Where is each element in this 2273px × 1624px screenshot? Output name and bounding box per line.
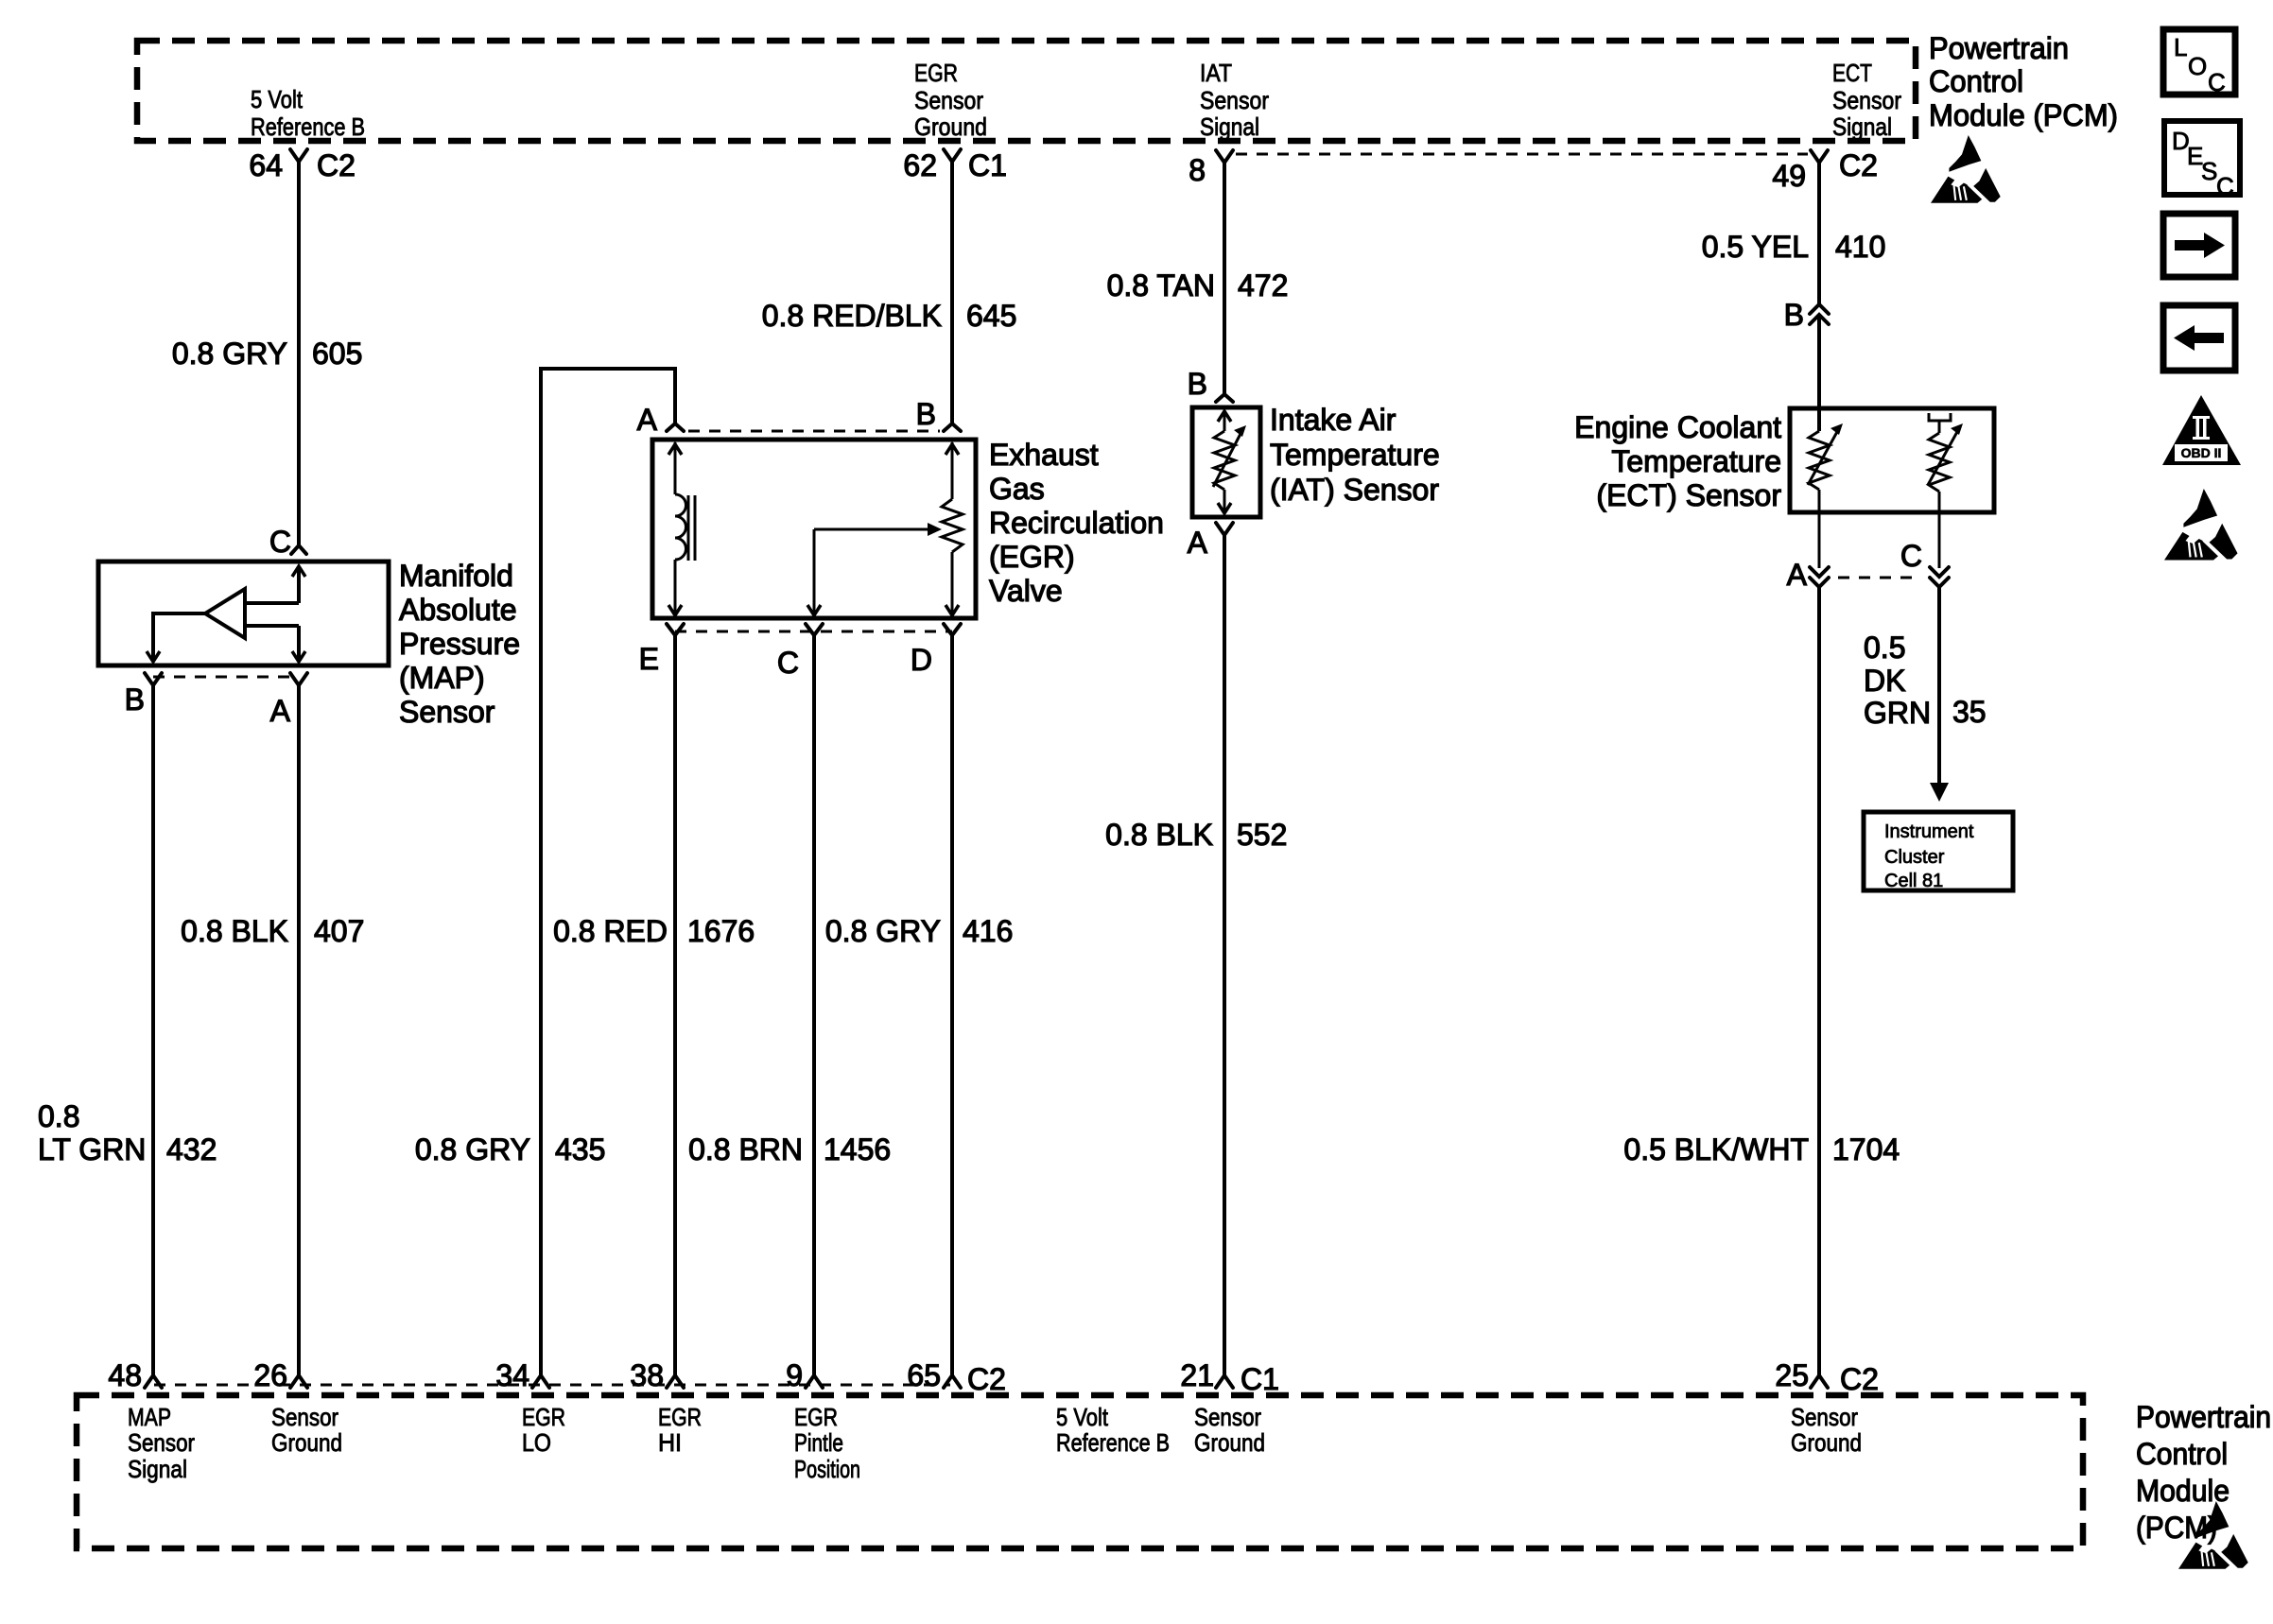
EGR pin C [806,624,823,635]
svg-text:5 Volt: 5 Volt [1056,1403,1109,1431]
svg-text:48: 48 [108,1358,142,1392]
EGR pin E [667,624,684,635]
svg-text:Control: Control [1929,64,2023,98]
svg-text:Signal: Signal [1832,112,1892,141]
svg-text:(MAP): (MAP) [399,661,485,695]
svg-text:C: C [2208,68,2226,96]
wire 35 (0.5 DK GRN) C to instrument cluster [1937,587,1941,785]
svg-text:LO: LO [522,1428,551,1457]
wire 435 branch: EGR A up and left to pin 34 [541,369,675,1375]
svg-text:Temperature: Temperature [1611,444,1781,478]
svg-text:605: 605 [312,337,362,371]
IAT pin A [1216,523,1233,535]
svg-text:LT GRN: LT GRN [38,1132,146,1166]
svg-text:O: O [2188,52,2207,80]
ESD symbol bottom right [2178,1501,2248,1570]
pin 9 (PCM bottom) [806,1375,823,1388]
svg-text:416: 416 [963,914,1013,948]
pin 65 (PCM bottom) [944,1375,961,1388]
svg-text:0.8 BRN: 0.8 BRN [688,1132,803,1166]
svg-text:Recirculation: Recirculation [989,506,1164,540]
pin 25 (PCM bottom) [1811,1375,1828,1388]
ECT sensor box [1790,408,1994,512]
svg-text:C: C [2216,172,2234,200]
svg-text:0.8 TAN: 0.8 TAN [1107,268,1215,302]
svg-text:65: 65 [907,1358,941,1392]
svg-text:0.8 BLK: 0.8 BLK [1105,818,1213,852]
svg-text:25: 25 [1775,1358,1809,1392]
wire 1704 (0.5 BLK/WHT) A to pin 25 [1817,587,1821,1375]
svg-text:D: D [911,643,932,677]
EGR pin D [944,624,961,635]
EGR solenoid coil [674,442,677,494]
svg-text:1456: 1456 [824,1132,891,1166]
instrument cluster box [1864,812,2013,890]
svg-text:(IAT) Sensor: (IAT) Sensor [1270,473,1439,507]
pin 48 (PCM bottom) [145,1375,162,1388]
wire 416 (0.8 GRY) EGR D to pin 65 [950,635,954,1375]
svg-text:26: 26 [253,1358,287,1392]
svg-text:(EGR): (EGR) [989,540,1075,574]
pin 38 (PCM bottom) [667,1375,684,1388]
ECT thermistor 1 [1809,431,1830,490]
svg-text:Cell 81: Cell 81 [1884,871,1943,891]
MAP sensor box [98,561,389,665]
MAP pin C [291,545,306,554]
wire 432 (0.8 LT GRN) MAP B to pin 48 [151,685,155,1375]
EGR pin A [667,423,684,431]
pin 64 C2 (PCM top) [290,149,307,162]
pin 49 C2 (PCM top) [1811,150,1828,163]
svg-text:Sensor: Sensor [1791,1403,1858,1431]
svg-text:64: 64 [249,148,283,182]
svg-text:Reference B: Reference B [1056,1428,1170,1457]
svg-text:49: 49 [1772,159,1806,193]
icon: OBD II triangle [2162,395,2241,465]
MAP connector dashed line B-A [153,676,299,679]
svg-text:0.5 YEL: 0.5 YEL [1702,230,1809,264]
svg-text:C2: C2 [967,1362,1006,1396]
svg-text:Ground: Ground [1194,1428,1265,1457]
svg-text:Pressure: Pressure [399,627,520,661]
svg-text:Exhaust: Exhaust [989,438,1099,472]
svg-text:Manifold: Manifold [399,559,513,593]
wire splice B to ECT [1817,315,1821,431]
svg-text:Ground: Ground [914,112,987,141]
svg-text:Cluster: Cluster [1884,847,1945,868]
svg-text:5 Volt: 5 Volt [251,85,304,113]
svg-text:0.8 GRY: 0.8 GRY [825,914,941,948]
EGR pintle position resistor [951,442,954,499]
svg-text:DK: DK [1864,664,1905,698]
svg-text:B: B [125,682,145,717]
svg-text:Engine Coolant: Engine Coolant [1574,410,1781,444]
PCM bottom dashed box [77,1395,2083,1548]
svg-text:EGR: EGR [522,1403,565,1431]
svg-text:Instrument: Instrument [1884,821,1974,842]
IAT pin B [1216,394,1233,402]
svg-text:Sensor: Sensor [128,1428,195,1457]
svg-text:L: L [2174,33,2187,61]
IAT sensor box [1192,407,1260,517]
ESD symbol right column [2164,489,2238,561]
pin 26 (PCM bottom) [290,1375,307,1388]
svg-text:A: A [637,403,658,437]
svg-text:C1: C1 [968,148,1007,182]
svg-text:432: 432 [166,1132,217,1166]
svg-text:Module: Module [2136,1474,2230,1508]
svg-text:EGR: EGR [794,1403,838,1431]
IAT thermistor element [1223,410,1226,431]
svg-text:Position: Position [794,1455,860,1483]
pin 8 (PCM top) [1216,150,1233,163]
wire 410 (0.5 YEL) pin 49 to splice B [1817,162,1821,304]
svg-text:Signal: Signal [128,1455,187,1483]
svg-text:E: E [639,642,659,676]
svg-text:552: 552 [1237,818,1287,852]
svg-text:Powertrain: Powertrain [1929,31,2069,65]
svg-text:C2: C2 [1839,148,1878,182]
svg-text:410: 410 [1835,230,1885,264]
in-line connector A (double chevron) [1810,567,1829,577]
ECT thermistor 1 variable arrow [1808,430,1838,485]
svg-text:0.5 BLK/WHT: 0.5 BLK/WHT [1623,1132,1809,1166]
svg-text:0.8 RED: 0.8 RED [553,914,668,948]
ECT thermistor 2 variable arrow [1928,430,1958,485]
svg-text:A: A [270,694,291,728]
EGR valve box [652,440,976,618]
svg-text:407: 407 [314,914,364,948]
wire 1676 (0.8 RED) EGR E to pin 38 [673,635,677,1375]
svg-text:472: 472 [1238,268,1288,302]
svg-text:Pintle: Pintle [794,1428,843,1457]
svg-text:S: S [2201,157,2217,185]
pin 21 (PCM bottom) [1216,1375,1233,1388]
icon: LOC box [2163,29,2235,95]
ESD symbol top right [1931,135,2001,204]
svg-text:C: C [777,646,799,680]
ECT thermistor 2 [1929,433,1950,492]
PCM top dashed box [137,41,1916,141]
svg-text:EGR: EGR [914,59,958,87]
svg-text:B: B [916,397,936,431]
svg-text:9: 9 [786,1358,803,1392]
op-amp triangle (MAP) [205,589,245,638]
svg-text:0.8 BLK: 0.8 BLK [181,914,288,948]
ECT element 2 case symbol [1929,413,1951,433]
EGR connector dashed line A-B [688,430,940,433]
svg-text:MAP: MAP [128,1403,171,1431]
svg-text:0.8 RED/BLK: 0.8 RED/BLK [762,299,942,333]
svg-text:Module (PCM): Module (PCM) [1929,98,2118,132]
svg-text:Ground: Ground [1791,1428,1862,1457]
connector dashed line pins 8 to 49 [1236,153,1808,156]
svg-text:0.8 GRY: 0.8 GRY [172,337,287,371]
svg-text:A: A [1787,558,1808,592]
svg-text:Gas: Gas [989,472,1045,506]
svg-text:A: A [1188,526,1208,560]
svg-text:21: 21 [1180,1358,1214,1392]
wire 407 (0.8 BLK) MAP A to pin 26 [297,685,301,1375]
MAP pin B [145,673,162,685]
svg-text:Valve: Valve [989,574,1063,608]
svg-text:Sensor: Sensor [1200,86,1269,114]
connector dashed line pins 48 to 65 [154,1384,950,1387]
svg-text:8: 8 [1189,153,1206,187]
wire 1456 (0.8 BRN) EGR C to pin 9 [812,635,816,1375]
svg-text:645: 645 [966,299,1016,333]
svg-text:Reference B: Reference B [251,112,365,141]
svg-text:Powertrain: Powertrain [2136,1400,2271,1434]
connector dashed line A-C [1838,577,1920,579]
in-line connector C (double chevron) [1930,567,1949,577]
svg-text:Temperature: Temperature [1270,438,1440,472]
icon: arrow right box [2163,214,2235,277]
IAT variable arrow [1213,432,1241,487]
svg-text:C1: C1 [1241,1362,1279,1396]
svg-text:0.8 GRY: 0.8 GRY [415,1132,530,1166]
EGR wiper arrow from pin C [814,528,930,531]
svg-text:Ground: Ground [271,1428,342,1457]
svg-text:OBD II: OBD II [2181,445,2222,460]
svg-text:Sensor: Sensor [1832,86,1901,114]
pin 34 (PCM bottom) [532,1375,549,1388]
wire 605 (0.8 GRY) pin 64 to MAP C [297,162,301,544]
MAP pin A [290,673,307,685]
svg-text:C: C [269,525,291,559]
wire 645 (0.8 RED/BLK) pin 62 to EGR B [950,162,954,423]
MAP output line to pin B [153,613,205,661]
svg-text:435: 435 [555,1132,605,1166]
svg-text:1704: 1704 [1832,1132,1900,1166]
svg-text:38: 38 [630,1358,664,1392]
svg-text:Control: Control [2136,1437,2228,1471]
svg-text:Absolute: Absolute [399,593,517,627]
svg-text:B: B [1188,367,1207,401]
svg-text:Sensor: Sensor [1194,1403,1261,1431]
svg-text:Intake Air: Intake Air [1270,403,1397,437]
MAP internal signal line [297,567,301,603]
svg-text:C: C [1900,539,1922,573]
svg-text:35: 35 [1952,695,1987,729]
icon: arrow left box [2163,305,2235,371]
svg-text:Signal: Signal [1200,112,1259,141]
svg-text:34: 34 [495,1358,529,1392]
svg-text:62: 62 [903,148,937,182]
svg-text:Sensor: Sensor [914,86,983,114]
svg-text:1676: 1676 [687,914,755,948]
svg-text:Sensor: Sensor [399,695,495,729]
svg-text:0.5: 0.5 [1864,631,1905,665]
EGR pin B [944,423,961,431]
svg-text:IAT: IAT [1200,59,1232,87]
svg-text:Sensor: Sensor [271,1403,338,1431]
svg-text:ECT: ECT [1832,59,1872,87]
svg-text:EGR: EGR [658,1403,702,1431]
svg-text:C2: C2 [317,148,356,182]
in-line connector B (double chevron) [1810,304,1829,314]
wire 472 (0.8 TAN) pin 8 to IAT B [1223,162,1226,393]
svg-text:GRN: GRN [1864,696,1931,730]
svg-text:0.8: 0.8 [38,1099,79,1133]
wire 552 (0.8 BLK) IAT A to pin 21 [1223,535,1226,1375]
svg-text:(ECT) Sensor: (ECT) Sensor [1596,478,1781,512]
pin 62 C1 (PCM top) [944,149,961,162]
EGR connector dashed line E-C-D [675,631,952,633]
svg-text:B: B [1784,298,1804,332]
icon: DESC box [2164,121,2240,195]
svg-text:C2: C2 [1840,1362,1879,1396]
svg-text:HI: HI [658,1428,682,1457]
